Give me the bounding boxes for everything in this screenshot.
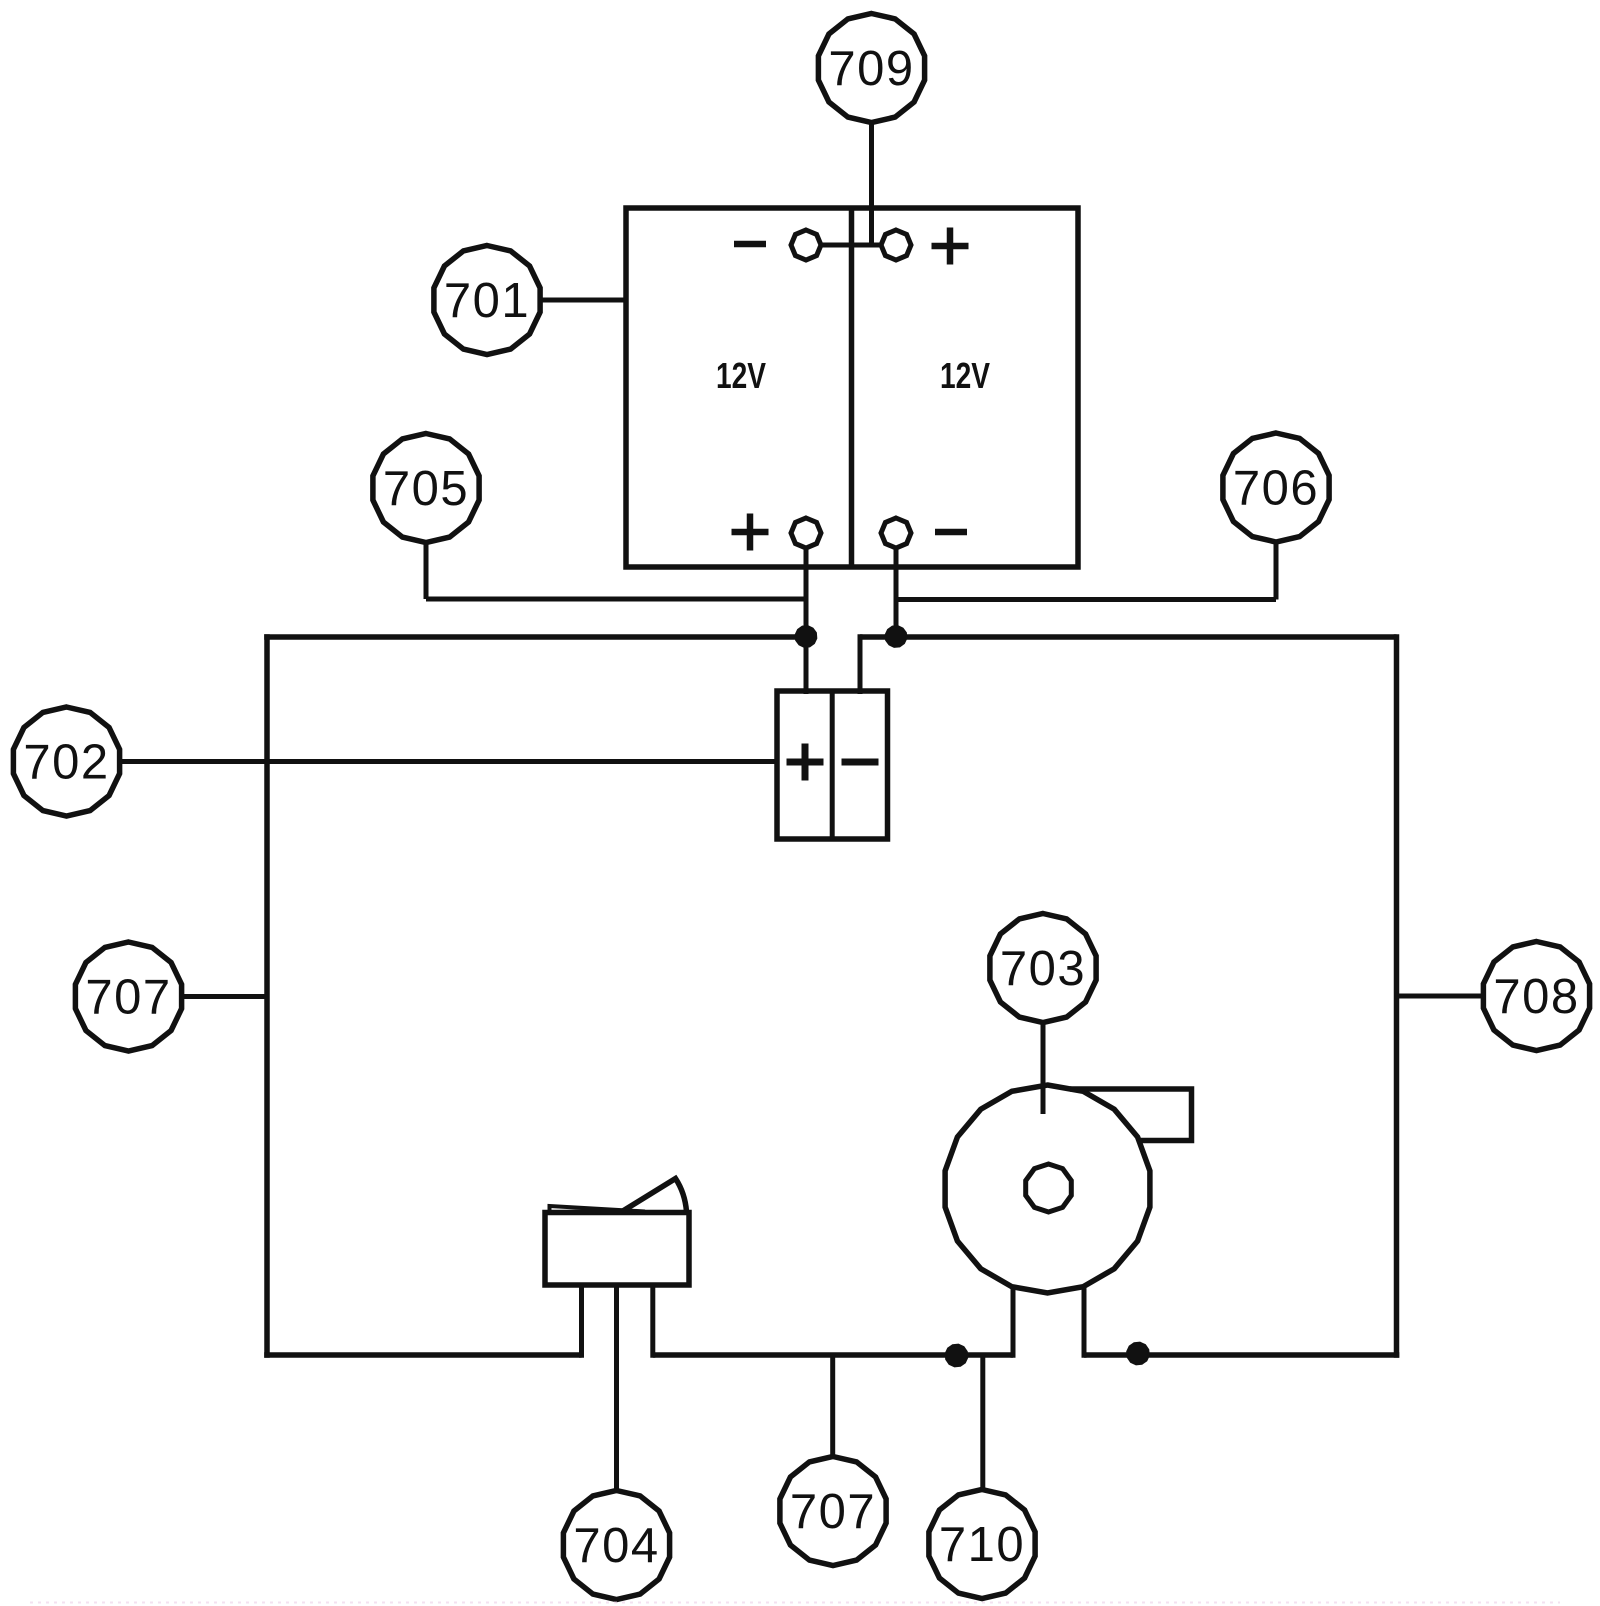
switch pin right: [650, 1285, 655, 1358]
plus sign top-right cell: [932, 228, 969, 265]
plus sign bottom-left cell: [732, 514, 769, 551]
wire: callout 705 horizontal run to battery positive lead: [426, 597, 806, 602]
faint scan artifact line at bottom: [30, 1602, 1560, 1604]
main box top edge right segment: [860, 634, 1397, 640]
svg-text:12V: 12V: [716, 355, 766, 396]
wire between top terminals (series link): [821, 243, 881, 248]
battery terminal bottom-right (negative): [881, 518, 911, 548]
plus sign fuse block left cell: [787, 744, 824, 781]
svg-text:705: 705: [383, 462, 469, 516]
battery terminal top-right (positive): [881, 230, 911, 260]
callout label 710: [929, 1490, 1035, 1599]
callout label 702: [13, 707, 119, 816]
battery cell divider: [849, 208, 855, 567]
svg-text:707: 707: [790, 1485, 876, 1539]
wire: callout 705 stem down: [424, 543, 429, 600]
main circuit box 707/708 loop: left edge: [264, 634, 270, 1357]
svg-text:12V: 12V: [940, 355, 990, 396]
main box bottom edge middle segment (bus): [653, 1352, 1013, 1358]
motor shaft inner circle: [1026, 1164, 1072, 1212]
svg-text:708: 708: [1493, 970, 1579, 1024]
callout label 701: [434, 246, 540, 355]
svg-text:701: 701: [444, 274, 530, 328]
wire: callout 709 stem to series link: [869, 123, 874, 248]
minus sign fuse block right cell: [842, 759, 879, 766]
wire: callout 710 stem to bus: [980, 1355, 985, 1490]
wire: jog down from top edge into fuse block negative: [858, 634, 863, 694]
minus sign bottom-right cell: [935, 529, 967, 536]
wire: bottom callout 707 stem to bus: [830, 1355, 835, 1457]
wire: callout 701 stem to battery: [542, 298, 627, 303]
junction node bus left of motor: [946, 1345, 968, 1367]
callout label 707 left: [75, 942, 181, 1051]
callout label 704: [563, 1491, 669, 1600]
main box top edge left segment: [264, 634, 806, 640]
battery terminal bottom-left (positive): [791, 518, 821, 548]
switch rocker raised flap: [622, 1179, 687, 1212]
callout label 709: [818, 14, 924, 123]
battery terminal top-left (negative): [791, 230, 821, 260]
wire: callout 703 stem into motor: [1041, 1023, 1046, 1115]
wire: callout 706 horizontal run to battery negative lead: [896, 597, 1276, 602]
svg-text:702: 702: [23, 736, 109, 790]
battery 701 (two 12V cells): [626, 208, 1078, 567]
minus sign top-left cell: [734, 241, 766, 248]
wire: callout 702 stem to fuse block: [121, 759, 777, 764]
motor lead left: [1011, 1287, 1016, 1358]
wire: callout 706 stem down: [1274, 542, 1279, 600]
callout label 706: [1223, 433, 1329, 542]
main box bottom edge left segment: [264, 1352, 581, 1358]
motor 703 housing circle: [945, 1085, 1150, 1293]
svg-text:704: 704: [573, 1519, 659, 1573]
switch rocker flat blade: [550, 1206, 646, 1212]
main box right edge: [1394, 634, 1400, 1357]
callout label 708: [1483, 942, 1589, 1051]
wire: battery bottom-left terminal lead down to fuse block positive: [804, 548, 809, 694]
switch pin middle / callout 704 stem: [614, 1285, 619, 1491]
switch pin left: [579, 1285, 584, 1358]
svg-text:707: 707: [85, 971, 171, 1025]
motor lead right: [1082, 1287, 1087, 1358]
wire: callout 707 stem to box left edge: [183, 994, 267, 999]
wire: battery bottom-right terminal lead down to node: [894, 548, 899, 639]
switch 704 body: [545, 1213, 689, 1286]
wire: callout 708 stem to box right edge: [1397, 994, 1483, 999]
callout label 707 bottom: [780, 1457, 886, 1566]
fuse block divider: [830, 691, 835, 839]
callout label 705: [373, 434, 479, 543]
svg-text:706: 706: [1233, 462, 1319, 516]
junction node battery negative / box top: [886, 626, 907, 647]
svg-text:703: 703: [1000, 942, 1086, 996]
callout label 703: [990, 914, 1096, 1023]
main box bottom edge right segment: [1084, 1352, 1399, 1358]
svg-text:709: 709: [828, 42, 914, 96]
junction node bus right of motor: [1127, 1343, 1149, 1365]
fuse block 702 body: [777, 691, 888, 839]
motor outlet duct: [1070, 1089, 1192, 1141]
junction node battery positive / box top: [796, 626, 817, 647]
svg-text:710: 710: [939, 1518, 1025, 1572]
